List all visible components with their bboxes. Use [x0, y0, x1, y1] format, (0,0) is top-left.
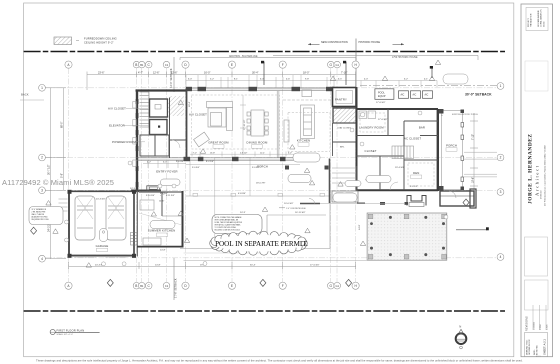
grid bubbles top row [65, 61, 359, 68]
svg-text:C1: C1 [165, 63, 169, 67]
left BACK setback label [20, 93, 44, 101]
svg-text:BUILDING CODE SECTION 1026.5: BUILDING CODE SECTION 1026.5 [215, 230, 241, 232]
right dimension line [470, 113, 478, 190]
svg-text:E: E [231, 63, 233, 67]
svg-text:REQUIRED PER CODE: REQUIRED PER CODE [32, 219, 49, 221]
svg-text:14'-8": 14'-8" [160, 250, 166, 252]
addition bracket [180, 56, 478, 61]
svg-text:JORGE L. HERNANDEZ: JORGE L. HERNANDEZ [528, 133, 534, 204]
svg-text:1 01/2025: 1 01/2025 [534, 322, 536, 330]
pantry block [333, 88, 357, 124]
great room sofas [194, 102, 233, 147]
svg-text:5'-2": 5'-2" [210, 79, 214, 81]
svg-text:5'-8": 5'-8" [61, 173, 64, 178]
svg-text:4'-2": 4'-2" [147, 162, 151, 164]
svg-text:F: F [282, 284, 284, 288]
svg-text:18'-0 7/8": 18'-0 7/8" [256, 182, 265, 184]
svg-text:10'-0 3/4": 10'-0 3/4" [284, 203, 293, 205]
svg-text:16'-0": 16'-0" [204, 72, 210, 75]
cloud note: pool note [212, 215, 262, 234]
svg-text:24'-3 3/4": 24'-3 3/4" [96, 199, 105, 201]
svg-text:A11729492 © Miami MLS® 2025: A11729492 © Miami MLS® 2025 [2, 178, 114, 187]
drawing title box [525, 333, 548, 357]
svg-text:These drawings and description: These drawings and descriptions are the … [36, 358, 523, 362]
svg-text:EXISTING HISTORIC PORCH: EXISTING HISTORIC PORCH [452, 114, 478, 116]
svg-text:137 Palermo Avenue, Coral Gabl: 137 Palermo Avenue, Coral Gables, Florid… [544, 144, 547, 206]
svg-text:PORCH: PORCH [446, 144, 457, 148]
title block upper empty box [525, 61, 548, 91]
south terrace edge walls [300, 202, 365, 204]
svg-text:30'-7 1/2": 30'-7 1/2" [48, 164, 51, 175]
seal box [525, 237, 548, 276]
label value boxes [97, 143, 458, 252]
svg-text:7'-10": 7'-10" [472, 134, 475, 140]
svg-text:SHEET: A-2.1: SHEET: A-2.1 [543, 339, 547, 355]
svg-text:30'-0" SETBACK: 30'-0" SETBACK [465, 93, 492, 97]
svg-text:A/C: A/C [413, 94, 417, 97]
right wing north wall [356, 108, 438, 110]
grid bubbles right column [497, 83, 504, 261]
diamond markers [31, 199, 469, 286]
svg-text:17'-6 3/4": 17'-6 3/4" [310, 265, 319, 267]
hall arcs [160, 140, 398, 196]
svg-text:17'-6" SETBACK: 17'-6" SETBACK [174, 278, 178, 298]
svg-text:9'-2 1/2": 9'-2 1/2" [410, 186, 418, 188]
porch east colonnade [439, 109, 497, 191]
svg-text:GARAGE: GARAGE [96, 244, 109, 248]
svg-text:14'-8": 14'-8" [359, 224, 361, 230]
left wall window bays [133, 102, 137, 167]
terrace south edge line [184, 259, 368, 261]
svg-text:14'-8": 14'-8" [155, 265, 161, 267]
top dimension line [87, 72, 356, 91]
grid bubbles bottom row [65, 282, 359, 289]
svg-text:B1: B1 [140, 63, 144, 67]
den steps bottom [398, 222, 438, 225]
summer kitchen block walls [137, 191, 184, 247]
svg-text:12'-1": 12'-1" [260, 153, 265, 155]
cloud note: garage connection [29, 207, 63, 225]
cars in garage [75, 196, 126, 240]
svg-text:SCALE: 1/4" = 1'-0": SCALE: 1/4" = 1'-0" [57, 333, 74, 336]
svg-text:AS NOTED: AS NOTED [536, 345, 539, 355]
svg-text:1750 HISTORIC HOUSE: 1750 HISTORIC HOUSE [392, 57, 418, 59]
scooter between cars [100, 229, 108, 242]
window sill blocks left wall [136, 99, 139, 187]
door tags [102, 111, 449, 266]
svg-text:3: 3 [500, 190, 502, 194]
svg-text:B1: B1 [140, 284, 144, 288]
kitchen counters [284, 90, 315, 142]
car clearance X marks [77, 197, 124, 219]
right wing west wall [356, 87, 358, 191]
svg-text:DEN: DEN [413, 171, 419, 175]
AC units [399, 91, 433, 99]
svg-text:6'-0": 6'-0" [188, 79, 192, 81]
second box [525, 280, 549, 310]
south terrace outline [180, 190, 330, 249]
cloud: vestibule [366, 176, 391, 183]
kitchen north wall [283, 99, 331, 101]
garage house steps [131, 233, 138, 246]
svg-text:4'-6": 4'-6" [286, 79, 290, 81]
svg-text:12'-6": 12'-6" [171, 72, 177, 75]
setback line 12'-0" [169, 57, 174, 92]
svg-text:30'-4": 30'-4" [250, 265, 256, 267]
svg-text:8'-1": 8'-1" [234, 79, 238, 81]
svg-text:4'-0": 4'-0" [364, 79, 368, 81]
summer kitchen counter [139, 200, 182, 245]
kitchen west wall [276, 91, 278, 158]
wall D column line [186, 88, 188, 160]
svg-text:CEILING HEIGHT 9'-2": CEILING HEIGHT 9'-2" [84, 41, 114, 45]
svg-text:1'-0" CONCRETE EDGE: 1'-0" CONCRETE EDGE [286, 208, 307, 210]
svg-text:F: F [282, 63, 284, 67]
svg-text:REVISIONS: REVISIONS [526, 316, 529, 331]
elevator [150, 120, 168, 135]
legend furred-down ceiling [54, 37, 117, 45]
svg-text:27'-10 1/2": 27'-10 1/2" [244, 119, 246, 130]
svg-text:1: 1 [500, 84, 502, 88]
svg-text:3: 3 [41, 189, 43, 193]
svg-text:G1: G1 [335, 63, 339, 67]
svg-text:9'-0 3/4": 9'-0 3/4" [176, 161, 184, 163]
courtyard steps [332, 168, 355, 183]
svg-text:6'-5": 6'-5" [338, 79, 342, 81]
svg-text:FIRST FLOOR PLAN: FIRST FLOOR PLAN [57, 328, 85, 332]
svg-text:24'-3": 24'-3" [240, 212, 246, 214]
title block project box [526, 8, 548, 31]
svg-text:19'-6": 19'-6" [472, 177, 475, 183]
svg-text:B1 3: B1 3 [536, 356, 541, 358]
revision triangles [46, 60, 441, 267]
top wall left section [136, 89, 188, 91]
mid wall tick noise [190, 152, 300, 157]
bottom dimension line [69, 262, 357, 269]
right wing east wall [437, 109, 439, 191]
svg-text:2: 2 [41, 156, 43, 160]
svg-text:BEV.: BEV. [340, 147, 345, 149]
label leader lines [124, 108, 149, 141]
title block outer [521, 4, 553, 357]
svg-text:3'-10 3/4": 3'-10 3/4" [146, 195, 155, 197]
vertical grid center lines [69, 68, 356, 282]
svg-text:ENTRY FOYER: ENTRY FOYER [156, 169, 177, 173]
coat closet walls [333, 123, 357, 156]
laundry appliances [359, 111, 376, 119]
left dimension lines [45, 88, 66, 259]
svg-text:DINING ROOM: DINING ROOM [247, 141, 268, 145]
revisions [526, 305, 549, 331]
svg-text:4'-7": 4'-7" [138, 72, 143, 75]
grid bubbles left column [39, 84, 46, 262]
furred ceiling dashed rects [192, 95, 435, 186]
pool equip box [375, 89, 394, 100]
architect name block [528, 133, 547, 206]
secondary top dimension row [186, 75, 437, 88]
entry porch tick noise [143, 158, 300, 248]
svg-text:GREAT ROOM: GREAT ROOM [208, 141, 229, 145]
svg-text:CLOSET: CLOSET [365, 149, 377, 153]
cloud: courtyard notes [293, 153, 320, 162]
svg-text:AC CLOSET: AC CLOSET [404, 137, 421, 141]
svg-text:18'-4": 18'-4" [189, 101, 191, 107]
garage side steps [59, 199, 68, 211]
svg-text:NEW CONSTRUCTION: NEW CONSTRUCTION [321, 41, 348, 44]
left exterior wall [136, 90, 138, 192]
svg-text:23'-6": 23'-6" [98, 72, 104, 75]
svg-text:BAR: BAR [419, 125, 425, 129]
svg-text:12'-6": 12'-6" [153, 72, 159, 75]
svg-text:THE ADDITION: THE ADDITION [529, 13, 532, 27]
entry steps [147, 186, 160, 191]
svg-text:KITCHEN: KITCHEN [297, 139, 310, 143]
svg-text:17'-6 3/4": 17'-6 3/4" [378, 119, 387, 121]
pool deck [367, 213, 447, 260]
horizontal grid center lines [46, 88, 497, 258]
garage corner blocks [68, 190, 137, 258]
courtyard walls center-right [285, 159, 357, 204]
cloud: summer kitchen appliances [150, 221, 175, 229]
svg-text:EQUIP: EQUIP [378, 95, 386, 98]
svg-text:A/V CLOSET: A/V CLOSET [108, 106, 126, 110]
svg-text:17'-6 3/4": 17'-6 3/4" [376, 102, 385, 104]
svg-text:LAUNDRY ROOM: LAUNDRY ROOM [359, 125, 384, 129]
svg-text:N: N [459, 325, 461, 329]
outdoor fireplace [407, 196, 426, 207]
right wing south wall [356, 189, 438, 191]
svg-text:4'-11 3/4": 4'-11 3/4" [166, 195, 175, 197]
svg-text:8'-2 1/4": 8'-2 1/4" [206, 161, 214, 163]
svg-text:7'-10": 7'-10" [341, 72, 347, 75]
svg-text:6'-2": 6'-2" [404, 79, 408, 81]
terrace column bases [193, 193, 325, 196]
svg-text:2'-8 1/2": 2'-8 1/2" [240, 153, 248, 155]
svg-text:A/V CLOSET: A/V CLOSET [189, 112, 207, 116]
svg-text:HISTORIC HOUSE: HISTORIC HOUSE [359, 41, 381, 44]
svg-text:PORCH: PORCH [257, 165, 268, 169]
svg-text:ADDITION - 591 PARK AVE: ADDITION - 591 PARK AVE [229, 55, 258, 58]
svg-text:C1: C1 [165, 284, 169, 288]
svg-text:BACK: BACK [21, 93, 29, 97]
interior tiny dimensions [96, 101, 444, 251]
dining table [247, 110, 268, 136]
svg-text:E: E [231, 284, 233, 288]
svg-text:PANTRY: PANTRY [335, 98, 347, 102]
svg-text:ELEVATOR: ELEVATOR [109, 123, 125, 127]
svg-text:16'-11 3/4": 16'-11 3/4" [295, 212, 305, 214]
garage wall tags [65, 220, 69, 224]
setback dashed line right [360, 85, 497, 87]
garage outline [69, 191, 139, 257]
svg-text:6'-0": 6'-0" [288, 153, 292, 155]
svg-text:24'-3 3/4": 24'-3 3/4" [130, 188, 139, 190]
svg-text:CORAL GABLES, FL: CORAL GABLES, FL [539, 9, 542, 27]
svg-text:7'-10": 7'-10" [442, 110, 444, 116]
summer kitchen dims [146, 195, 175, 203]
entry front wall [131, 189, 161, 191]
interior dim verticals great room [240, 95, 246, 155]
svg-text:7'-0": 7'-0" [193, 153, 197, 155]
svg-text:30'-4": 30'-4" [252, 72, 258, 75]
property line top [24, 51, 505, 53]
plan title bottom left [50, 328, 100, 336]
cloud: entry note [161, 179, 181, 186]
section flags top [261, 61, 433, 85]
svg-text:2: 2 [500, 156, 502, 160]
svg-text:6'-3": 6'-3" [163, 162, 167, 164]
top wall great room with window breaks [186, 87, 334, 91]
svg-text:9'-8": 9'-8" [305, 79, 309, 81]
svg-text:4: 4 [500, 255, 502, 259]
svg-text:G1: G1 [335, 284, 339, 288]
svg-text:B: B [135, 284, 137, 288]
svg-text:COAT CLOSET: COAT CLOSET [337, 127, 352, 130]
svg-text:3 2025: 3 2025 [547, 325, 549, 331]
outdoor kitchen grill [332, 191, 358, 202]
svg-text:A/C: A/C [425, 94, 429, 97]
stair block [140, 91, 185, 128]
north compass [456, 325, 467, 349]
svg-text:33134: 33134 [544, 22, 546, 27]
right wing inner walls [356, 109, 438, 190]
svg-text:18'-0": 18'-0" [303, 72, 309, 75]
svg-text:POOL IN SEPARATE PERMIT.: POOL IN SEPARATE PERMIT. [215, 240, 308, 248]
svg-text:4'-1": 4'-1" [424, 79, 428, 81]
svg-text:68'-0": 68'-0" [61, 122, 64, 128]
svg-text:9'-0 3/4": 9'-0 3/4" [192, 167, 200, 169]
svg-text:4'-8 3/4": 4'-8 3/4" [238, 193, 246, 195]
svg-text:Architect: Architect [534, 165, 539, 197]
svg-text:1: 1 [41, 86, 43, 90]
svg-text:4: 4 [41, 257, 43, 261]
garage door openings [74, 255, 127, 257]
svg-text:SUMMER KITCHEN: SUMMER KITCHEN [148, 229, 176, 233]
svg-text:FURREDDOWN CEILING: FURREDDOWN CEILING [84, 37, 117, 41]
svg-text:2 2024: 2 2024 [540, 325, 542, 331]
svg-text:A/C: A/C [401, 94, 405, 97]
property line bottom [24, 310, 505, 312]
pavilion structure [440, 189, 476, 208]
right wing stairs [392, 146, 414, 159]
porch top revision cloud [443, 74, 468, 84]
svg-text:14'-6": 14'-6" [159, 201, 165, 203]
summer kitchen inner wall [161, 192, 163, 216]
svg-text:GROUND FLOOR: GROUND FLOOR [529, 339, 531, 355]
setback line 17'-6" [174, 258, 178, 300]
new construction / historic house labels [308, 39, 404, 87]
mid wall y156 with porch columns [136, 157, 302, 161]
section arrow right [456, 227, 489, 230]
svg-text:POWDER ROOM: POWDER ROOM [112, 140, 136, 144]
svg-text:19'-4 3/4": 19'-4 3/4" [395, 167, 404, 169]
svg-text:B: B [135, 63, 137, 67]
powder room walls [140, 98, 186, 159]
svg-text:16'-8": 16'-8" [210, 153, 215, 155]
POOL IN SEPARATE PERMIT cloud [210, 231, 308, 255]
